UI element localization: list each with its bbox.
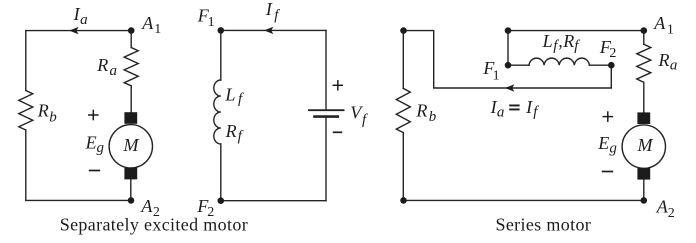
svg-text:E: E: [85, 132, 97, 152]
node supply top right: [400, 27, 407, 34]
arrow If mid: [264, 27, 273, 34]
svg-text:R: R: [562, 31, 574, 51]
node A2 left: [128, 197, 135, 204]
wire bottom left circuit: [26, 199, 131, 201]
svg-text:E: E: [597, 133, 609, 153]
svg-text:1: 1: [493, 69, 500, 84]
arrow Ia left: [69, 27, 78, 34]
svg-text:a: a: [670, 58, 678, 74]
svg-text:,: ,: [558, 31, 563, 51]
wire top right to A1: [508, 30, 644, 32]
wire supply to field branch: [403, 31, 611, 88]
wire motor right to A2: [643, 179, 645, 200]
wire right circuit bottom: [403, 199, 644, 201]
svg-text:g: g: [609, 141, 617, 157]
svg-text:a: a: [497, 105, 505, 121]
wire Ra to motor: [130, 86, 132, 112]
svg-text:2: 2: [668, 206, 675, 221]
svg-text:L: L: [542, 31, 553, 51]
resistor Rb right: [396, 88, 410, 132]
arrow Ia=If right: [505, 84, 514, 91]
svg-text:1: 1: [154, 22, 161, 37]
svg-text:b: b: [49, 110, 57, 126]
svg-text:2: 2: [207, 205, 214, 220]
svg-text:R: R: [96, 55, 108, 75]
motor brush block right bottom: [637, 168, 650, 180]
plus battery: [333, 84, 343, 86]
wire middle left rail upper: [220, 30, 222, 80]
wire middle right rail upper: [325, 30, 327, 110]
svg-text:2: 2: [609, 46, 616, 61]
resistor Ra: [124, 48, 138, 86]
svg-text:a: a: [110, 63, 118, 79]
node junction top field: [505, 27, 512, 34]
wire middle left rail lower: [220, 144, 222, 201]
svg-text:g: g: [97, 140, 105, 156]
svg-text:Separately excited motor: Separately excited motor: [60, 215, 248, 235]
resistor Ra right: [637, 44, 651, 82]
motor brush block right top: [637, 112, 650, 124]
node F1 mid: [218, 27, 225, 34]
node F2 right: [608, 62, 615, 69]
node A2 right: [641, 197, 648, 204]
wire Ra to motor right: [643, 82, 645, 112]
inductor Lf Rf series coil: [529, 58, 589, 65]
motor brush block left top: [124, 112, 137, 124]
svg-text:Series motor: Series motor: [495, 215, 591, 235]
minus battery: [333, 131, 342, 133]
wire A1 to Ra: [130, 31, 132, 48]
svg-text:f: f: [362, 112, 368, 128]
inductor Lf Rf coil: [214, 80, 221, 144]
minus Eg left: [89, 170, 100, 172]
motor M circle right: [622, 125, 665, 168]
svg-text:1: 1: [208, 15, 215, 30]
svg-text:A: A: [140, 196, 153, 216]
wire left rail upper: [25, 31, 27, 91]
battery Vf plates: [309, 109, 344, 111]
wire middle circuit top: [221, 29, 326, 31]
svg-text:f: f: [274, 7, 280, 23]
svg-text:1: 1: [667, 23, 674, 38]
node A1 right: [641, 27, 648, 34]
wire F2 lead: [589, 64, 611, 66]
wire F1 up: [507, 31, 509, 66]
svg-text:M: M: [637, 135, 654, 155]
svg-text:R: R: [37, 101, 49, 121]
wire right circuit left rail upper: [402, 31, 404, 89]
svg-text:R: R: [415, 101, 427, 121]
wire A1 to Ra right: [643, 31, 645, 45]
wire right circuit left rail lower: [402, 133, 404, 201]
wire middle bottom: [221, 200, 326, 202]
node F2 mid: [218, 197, 225, 204]
svg-text:R: R: [225, 121, 237, 141]
resistor Rb: [19, 91, 33, 131]
svg-text:L: L: [224, 84, 235, 104]
wire motor to A2: [130, 179, 132, 200]
plus Eg left: [88, 114, 99, 116]
minus Eg right: [602, 171, 613, 173]
wire left rail lower: [25, 130, 27, 200]
svg-text:I: I: [525, 97, 533, 117]
svg-text:a: a: [80, 12, 88, 28]
svg-text:A: A: [653, 13, 666, 33]
svg-text:I: I: [265, 0, 273, 19]
motor brush block left bottom: [124, 168, 137, 180]
svg-text:R: R: [658, 50, 670, 70]
node F1 right: [505, 62, 512, 69]
svg-text:b: b: [429, 109, 437, 125]
node A1 left: [128, 27, 135, 34]
motor M circle left: [109, 125, 152, 168]
svg-text:f: f: [238, 128, 244, 144]
svg-text:M: M: [123, 135, 140, 155]
plus Eg right: [603, 116, 614, 118]
wire middle right rail lower: [325, 117, 327, 201]
svg-text:A: A: [141, 13, 154, 33]
svg-text:f: f: [533, 104, 539, 120]
svg-text:f: f: [238, 91, 244, 107]
wire F1 lead: [508, 64, 529, 66]
wire left circuit top: [26, 30, 131, 32]
svg-text:f: f: [574, 38, 580, 54]
node supply bottom right: [400, 197, 407, 204]
